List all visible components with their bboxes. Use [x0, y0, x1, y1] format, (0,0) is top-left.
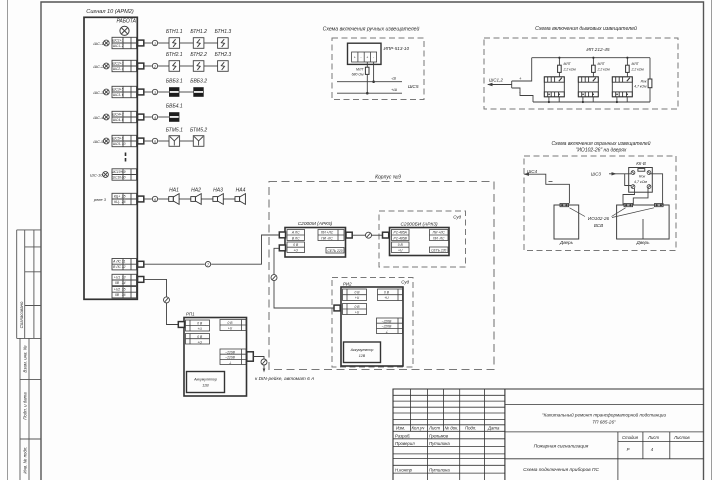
svg-text:С2000М (АРК5): С2000М (АРК5) [298, 221, 333, 227]
РИ2 terminals 220 [377, 318, 403, 334]
svg-text:ШС-5: ШС-5 [93, 139, 104, 144]
svg-text:10: 10 [122, 142, 126, 146]
node 7 [205, 262, 210, 267]
svg-text:Схема включения охранных извещ: Схема включения охранных извещателей [551, 140, 650, 147]
svg-text:ИПР-513-10: ИПР-513-10 [384, 46, 410, 51]
svg-text:+U: +U [228, 327, 233, 331]
row ШС-4 [93, 111, 157, 122]
РП1 left connector [178, 322, 184, 328]
svg-text:Суд: Суд [401, 280, 409, 285]
svg-text:0В: 0В [115, 293, 120, 297]
svg-text:⏚: ⏚ [228, 361, 231, 365]
row ШС-10 [90, 169, 136, 180]
svg-text:Н.контр: Н.контр [395, 468, 413, 473]
sheet left edge [7, 0, 9, 480]
detector base 2 [578, 77, 598, 97]
wire power panel to РП1 [144, 279, 179, 324]
svg-text:Стадия: Стадия [622, 435, 639, 440]
svg-text:Схема включения ручных извещат: Схема включения ручных извещателей [323, 26, 420, 33]
svg-text:6: 6 [154, 198, 156, 202]
svg-text:БТН1.2: БТН1.2 [190, 29, 207, 35]
svg-text:ШС2-: ШС2- [113, 67, 122, 71]
wire RS-485 panel to С2000М [144, 235, 279, 264]
block power 1 [112, 274, 144, 285]
svg-text:БТН2.1: БТН2.1 [166, 52, 183, 58]
svg-text:Путилина: Путилина [429, 468, 450, 473]
РП1 mains connector [247, 352, 254, 361]
arrow down to DIN [263, 369, 266, 373]
С2000М right connector [346, 232, 352, 238]
svg-text:Дверь: Дверь [635, 240, 650, 245]
svg-text:Лист: Лист [428, 426, 440, 431]
leader to left door sensor [570, 208, 586, 217]
svg-text:ШС-2: ШС-2 [93, 64, 104, 69]
РП1 terminals out2 [186, 334, 210, 345]
bus -ШС [337, 81, 402, 83]
svg-text:ШС1-: ШС1- [113, 44, 122, 48]
svg-text:5: 5 [122, 88, 124, 92]
svg-text:ШС-3: ШС-3 [93, 90, 104, 95]
svg-text:Листов: Листов [673, 435, 690, 440]
bus top [532, 57, 650, 59]
С2000М terminals RS-485 [287, 230, 305, 241]
svg-text:Аккумулятор: Аккумулятор [350, 348, 374, 352]
svg-text:ПИ -ЛС: ПИ -ЛС [433, 236, 445, 240]
svg-text:"ИО102-26" на дверях: "ИО102-26" на дверях [576, 148, 627, 154]
svg-text:Проверил: Проверил [395, 441, 415, 446]
svg-text:ПИ +ЛС: ПИ +ЛС [321, 231, 334, 235]
svg-text:ТП 685-26": ТП 685-26" [592, 420, 616, 425]
svg-text:0 В: 0 В [228, 321, 234, 325]
svg-text:А ЛС: А ЛС [112, 260, 121, 264]
svg-text:НА3: НА3 [213, 188, 223, 194]
labels НА1-НА4 [169, 188, 245, 194]
svg-text:Кол.уч: Кол.уч [412, 426, 426, 431]
device С2000М [285, 228, 346, 258]
svg-text:ШС3: ШС3 [591, 172, 602, 177]
resistor Rок in КК-В [638, 169, 645, 172]
svg-text:Инв. № подл.: Инв. № подл. [23, 446, 28, 473]
wire ШС4 to left door [525, 174, 570, 203]
svg-text:31: 31 [122, 260, 126, 264]
svg-text:33: 33 [122, 276, 126, 280]
block RS-485 [112, 259, 144, 270]
svg-text:~220В: ~220В [225, 356, 235, 360]
svg-text:ШС5: ШС5 [408, 84, 419, 90]
device С2000БИ [390, 228, 450, 256]
svg-text:С2000БИ (АРК3): С2000БИ (АРК3) [400, 222, 438, 228]
РИ2 terminals right [378, 289, 403, 301]
svg-text:20: 20 [121, 176, 126, 180]
sheet right edge [711, 0, 713, 480]
svg-text:ШС-1: ШС-1 [93, 41, 103, 46]
bus bottom [533, 101, 650, 103]
svg-text:БТМ5.2: БТМ5.2 [190, 128, 207, 134]
С2000М left connector RS-485 [279, 232, 285, 238]
svg-text:0 В: 0 В [398, 243, 404, 247]
wire КК-В right to sensor [651, 174, 663, 205]
resistor 3 [626, 65, 630, 72]
svg-text:+: + [366, 56, 368, 60]
svg-text:НА1: НА1 [169, 188, 179, 194]
tick minus [549, 181, 553, 183]
detectors БТМ5.1-5.2 [158, 140, 193, 142]
leader to right door sensor 1 [612, 208, 626, 217]
svg-text:ШС1+: ШС1+ [112, 39, 121, 43]
sensor on right door 1 [624, 204, 633, 207]
svg-text:3: 3 [154, 91, 156, 95]
wire ШС3 branch to bottom-left pad [625, 174, 631, 186]
block power 2 [112, 287, 137, 298]
svg-text:32: 32 [122, 265, 126, 269]
svg-text:КЦ-: КЦ- [114, 200, 120, 204]
svg-text:1: 1 [122, 39, 124, 43]
svg-text:ШС3+: ШС3+ [112, 88, 121, 92]
node DIN [261, 359, 267, 365]
dashed box ИП scheme [484, 38, 678, 109]
С2000БИ terminals power [392, 242, 410, 253]
svg-text:Схема включения дымовых извеща: Схема включения дымовых извещателей [535, 25, 637, 32]
РП1 terminals 220 [220, 349, 246, 365]
stage/sheet header [622, 435, 690, 452]
wire С2000М to С2000БИ [352, 234, 382, 236]
svg-text:-: - [519, 90, 521, 95]
svg-text:4: 4 [651, 447, 654, 452]
left strip grid [16, 230, 18, 339]
svg-text:ШС2+: ШС2+ [112, 62, 121, 66]
wire С2000М power to РИ2 [274, 248, 334, 308]
svg-text:12В: 12В [202, 384, 209, 388]
РИ2 battery [344, 342, 381, 363]
svg-text:~220В: ~220В [382, 319, 392, 323]
junction box КК-В [629, 168, 653, 193]
РП1 battery [187, 372, 225, 393]
svg-text:-: - [360, 56, 362, 60]
svg-text:Подп.: Подп. [465, 426, 476, 431]
svg-text:Р: Р [627, 447, 630, 452]
device ИПР-513-10 [348, 43, 382, 64]
svg-text:35: 35 [122, 288, 126, 292]
right door divider [642, 219, 644, 239]
svg-text:РИ2: РИ2 [343, 282, 352, 287]
svg-text:ШС4-: ШС4- [113, 118, 122, 122]
svg-text:+U2: +U2 [114, 288, 120, 292]
svg-text:4: 4 [122, 67, 124, 71]
svg-text:+U: +U [198, 340, 203, 344]
title block right grid [505, 404, 704, 406]
svg-text:Согласовано: Согласовано [19, 301, 24, 328]
svg-text:+: + [519, 76, 522, 81]
svg-text:1: 1 [154, 42, 156, 46]
svg-text:Дата: Дата [487, 426, 500, 431]
labels БТМ5.x [166, 128, 208, 134]
svg-text:4,7 кОм: 4,7 кОм [634, 180, 647, 184]
С2000БИ terminal 220 [430, 247, 449, 253]
РИ2 terminals out2 [343, 304, 367, 315]
РП1 terminals right [220, 320, 246, 331]
svg-text:Грельмов: Грельмов [429, 433, 449, 438]
svg-text:7: 7 [122, 113, 124, 117]
dashed box С2000БИ cabinet [379, 211, 466, 267]
svg-text:МЛТ: МЛТ [598, 62, 606, 66]
С2000М terminal 220 [326, 248, 344, 254]
node interconnect [366, 232, 372, 238]
svg-text:БТН1.3: БТН1.3 [215, 29, 232, 35]
wire ИПР to -ШС bus [373, 62, 375, 82]
svg-text:⏚: ⏚ [385, 330, 388, 334]
svg-text:ПИ -ЛС: ПИ -ЛС [321, 236, 333, 240]
svg-text:~220В: ~220В [225, 350, 235, 354]
resistor МЛТ 680 Ом [365, 67, 369, 74]
svg-text:0 В: 0 В [293, 243, 299, 247]
svg-text:ШС1,2: ШС1,2 [489, 78, 503, 83]
svg-text:+U: +U [198, 327, 203, 331]
svg-text:ШС5+: ШС5+ [112, 137, 121, 141]
svg-text:12В: 12В [359, 354, 366, 358]
С2000БИ terminals RS-485 [392, 230, 410, 241]
svg-text:ШС-4: ШС-4 [93, 115, 104, 120]
svg-text:+Ш: +Ш [391, 87, 397, 92]
С2000БИ terminals right [430, 230, 449, 241]
svg-text:0 В: 0 В [197, 322, 203, 326]
svg-text:РС-485В: РС-485В [394, 236, 408, 240]
РИ2 left connector [334, 305, 340, 311]
svg-text:МЛТ: МЛТ [632, 62, 640, 66]
node on РИ2 feed [271, 275, 277, 281]
svg-text:-Ш: -Ш [391, 76, 396, 81]
svg-text:Подп. и дата: Подп. и дата [23, 392, 28, 420]
svg-text:РАБОТА: РАБОТА [116, 19, 136, 25]
svg-text:№ док.: № док. [445, 426, 459, 431]
row ШС-5 [93, 135, 157, 146]
svg-text:5: 5 [154, 140, 156, 144]
enclosure dashed box Корпус №9 [269, 182, 494, 370]
labels БВБ3.x [166, 79, 207, 85]
svg-text:8: 8 [122, 118, 124, 122]
right door [617, 205, 670, 239]
resistor Rок [649, 58, 651, 102]
svg-text:Пожарная сигнализация: Пожарная сигнализация [534, 444, 589, 450]
svg-text:БТН1.1: БТН1.1 [166, 29, 183, 35]
svg-text:0 В: 0 В [197, 335, 203, 339]
sensor on left door [560, 204, 569, 207]
svg-text:Путилина: Путилина [429, 441, 450, 446]
svg-text:4,7 кОм: 4,7 кОм [634, 85, 647, 89]
svg-text:ИП 212-45: ИП 212-45 [586, 47, 610, 53]
С2000М left connector power [279, 245, 285, 251]
row ШС-2 [93, 60, 157, 71]
svg-text:ШС-10: ШС-10 [90, 172, 103, 177]
svg-text:"Капитальный ремонт трансформа: "Капитальный ремонт трансформаторной под… [542, 412, 666, 418]
svg-text:36: 36 [122, 293, 126, 297]
sounders НА1-НА4 [158, 198, 235, 200]
svg-text:ВСВ: ВСВ [594, 223, 603, 228]
svg-text:19: 19 [122, 170, 126, 174]
svg-text:Аккумулятор: Аккумулятор [193, 378, 217, 382]
svg-text:Изм.: Изм. [396, 426, 405, 431]
panel box U1 Сигнал-10 [84, 17, 137, 299]
svg-text:680 Ом: 680 Ом [352, 73, 365, 77]
svg-text:0 В: 0 В [355, 291, 361, 295]
svg-text:-: - [373, 56, 375, 60]
svg-text:РС-485А: РС-485А [394, 231, 408, 235]
title block header texts [395, 426, 500, 473]
detector БВБ4.1 [158, 116, 169, 118]
wire КК-В bottom-right pad to sensor [633, 188, 648, 205]
svg-text:КЦ+: КЦ+ [114, 195, 120, 199]
svg-text:МЛТ: МЛТ [356, 68, 364, 72]
svg-text:НА4: НА4 [236, 188, 246, 194]
svg-text:34: 34 [122, 281, 126, 285]
svg-text:Суд: Суд [453, 215, 461, 220]
svg-text:Сигнал 10 (АРМ2): Сигнал 10 (АРМ2) [86, 9, 134, 15]
detector base 1 [544, 77, 564, 97]
svg-text:МЛТ: МЛТ [564, 62, 572, 66]
row ШС-3 [93, 86, 157, 97]
РП1 terminals out1 [186, 320, 210, 331]
dashed box security scheme [524, 156, 676, 251]
svg-text:+U: +U [384, 296, 389, 300]
svg-text:БВБ4.1: БВБ4.1 [166, 104, 183, 110]
svg-text:ШС3-: ШС3- [113, 93, 122, 97]
svg-text:СЕТЬ 220: СЕТЬ 220 [327, 249, 342, 253]
title block left grid [410, 389, 412, 431]
ellipsis dots [125, 153, 127, 162]
svg-text:0 В: 0 В [355, 305, 361, 309]
svg-text:Rок: Rок [639, 175, 646, 179]
wire ШС1,2 with arrow [488, 58, 533, 102]
svg-text:+: + [354, 56, 356, 60]
wire КК-В bottom-left pad to sensor [623, 188, 635, 205]
svg-text:+U: +U [294, 249, 299, 253]
svg-text:ШС4+: ШС4+ [112, 113, 121, 117]
device РИ2 [341, 287, 403, 366]
svg-text:+U: +U [355, 311, 360, 315]
svg-text:9: 9 [122, 137, 124, 141]
svg-text:0В: 0В [115, 281, 120, 285]
detectors БТН2.1-2.3 [158, 65, 217, 67]
svg-text:к DIN-рейке, автомат 6 А: к DIN-рейке, автомат 6 А [255, 375, 314, 382]
svg-text:РП1: РП1 [186, 312, 195, 317]
svg-text:реле 3: реле 3 [93, 197, 107, 202]
svg-text:25: 25 [121, 195, 126, 199]
svg-text:0 В: 0 В [384, 291, 390, 295]
svg-text:~220В: ~220В [382, 325, 392, 329]
wire РП1 to DIN [253, 357, 264, 370]
svg-text:2,2 кОм: 2,2 кОм [631, 67, 645, 71]
svg-text:В ЛС: В ЛС [113, 265, 121, 269]
wire ИПР to +ШС bus [366, 75, 368, 93]
svg-text:ИО102-26: ИО102-26 [588, 216, 610, 221]
svg-text:3: 3 [122, 62, 124, 66]
device РП1 [184, 318, 247, 397]
РИ2 terminals out1 [343, 289, 367, 301]
svg-text:БТМ5.1: БТМ5.1 [166, 128, 183, 134]
sensor on right door 2 [655, 204, 664, 207]
detectors БТН1.1-1.3 [158, 42, 217, 44]
svg-text:2,2 кОм: 2,2 кОм [563, 67, 577, 71]
С2000М terminals power [287, 242, 305, 253]
bus +ШС [337, 92, 402, 94]
row реле 3 [93, 193, 158, 204]
svg-text:КК-В: КК-В [636, 161, 646, 166]
detector base 3 [612, 77, 632, 97]
lamp РАБОТА [120, 26, 129, 35]
svg-text:Разраб.: Разраб. [395, 433, 411, 438]
row ШС-1 [93, 37, 157, 48]
С2000М terminals right [318, 230, 344, 241]
svg-text:ПИ +ЛС: ПИ +ЛС [433, 231, 446, 235]
svg-text:БТН2.2: БТН2.2 [190, 52, 207, 58]
labels БТН2.x [166, 52, 231, 58]
node on РП1 feed [164, 297, 170, 303]
svg-text:+U: +U [398, 249, 403, 253]
svg-text:А ЛС: А ЛС [291, 231, 300, 235]
svg-text:В ЛС: В ЛС [292, 236, 300, 240]
resistor 1 [558, 65, 562, 72]
svg-text:Корпус №9: Корпус №9 [375, 175, 401, 181]
svg-text:СЕТЬ 220: СЕТЬ 220 [431, 248, 446, 252]
labels БТН1.x [166, 29, 231, 35]
svg-text:4: 4 [154, 116, 156, 120]
svg-text:+U1: +U1 [114, 276, 120, 280]
svg-text:Лист: Лист [647, 435, 659, 440]
svg-text:6: 6 [122, 93, 124, 97]
svg-text:БВБ3.1: БВБ3.1 [166, 79, 183, 85]
svg-text:НА2: НА2 [191, 188, 201, 194]
svg-text:БТН2.3: БТН2.3 [215, 52, 232, 58]
svg-text:БВБ3.2: БВБ3.2 [190, 79, 207, 85]
wire ШС3 to КК-В [609, 173, 631, 175]
svg-text:+U: +U [355, 296, 360, 300]
svg-text:Взам. инв. №: Взам. инв. № [23, 345, 28, 372]
svg-text:2: 2 [121, 44, 124, 48]
dashed box РИ2 cabinet [332, 278, 413, 368]
svg-text:2: 2 [153, 65, 156, 69]
svg-text:26: 26 [121, 200, 126, 204]
svg-text:ШС5-: ШС5- [113, 142, 122, 146]
left door [554, 205, 579, 239]
svg-text:Схема подключения приборов ПС: Схема подключения приборов ПС [523, 467, 599, 473]
ИПР terminal strip [352, 52, 377, 62]
svg-text:Дверь: Дверь [559, 240, 574, 245]
leader to right door sensor 2 [612, 208, 654, 218]
resistor 2 [592, 65, 596, 72]
svg-text:2,2 кОм: 2,2 кОм [597, 67, 611, 71]
С2000БИ left connector [383, 232, 389, 238]
detectors БВБ3.1-3.2 [158, 91, 193, 93]
svg-text:Rок: Rок [641, 80, 647, 84]
dashed box ИПР scheme [332, 38, 424, 100]
